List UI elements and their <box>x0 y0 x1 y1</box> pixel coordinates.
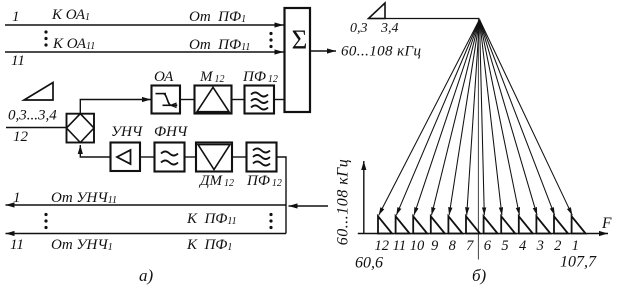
svg-text:От УНЧ11: От УНЧ11 <box>51 190 117 206</box>
label К ПФ1 <box>186 237 232 253</box>
hybrid block (square with diamond) <box>67 114 95 143</box>
svg-text:9: 9 <box>431 238 439 254</box>
label OA <box>154 69 174 85</box>
svg-text:К ОА1: К ОА1 <box>51 7 90 23</box>
spectrum ramp symbol 0,3...3,4 <box>24 83 53 101</box>
summator output wire <box>310 50 336 52</box>
label 11 (bottom-left) <box>10 237 24 253</box>
demodulator DM12 <box>196 143 232 172</box>
svg-text:ФНЧ: ФНЧ <box>154 124 189 140</box>
label От УНЧ11 <box>51 190 117 206</box>
label б) <box>472 266 487 285</box>
label DM12 <box>198 173 234 189</box>
wire DM12 to PF12b <box>232 156 247 158</box>
ellipsis dots bottom-right <box>269 213 272 229</box>
svg-text:0,3: 0,3 <box>350 21 368 36</box>
label 60...108 кГц (axis) <box>335 159 352 246</box>
label 0,3...3,4 <box>8 108 57 124</box>
wire PF12b to receive bus <box>277 157 287 234</box>
amplifier UNCh <box>111 143 141 172</box>
wire UNCh to FNCh <box>140 156 155 158</box>
svg-text:107,7: 107,7 <box>560 254 597 271</box>
wire hybrid to OA <box>80 100 151 114</box>
frequency axis F <box>358 233 608 235</box>
svg-text:От УНЧ1: От УНЧ1 <box>51 237 113 253</box>
svg-text:б): б) <box>472 266 487 285</box>
wire line 1 (from UNCh11) <box>6 204 287 206</box>
ramp symbol 0,3-3,4 (b) <box>369 3 386 19</box>
svg-text:3,4: 3,4 <box>380 21 399 36</box>
wire UNC to hybrid <box>80 145 110 157</box>
svg-text:11: 11 <box>393 238 406 254</box>
ellipsis dots left top <box>44 30 47 46</box>
svg-text:60...108 кГц: 60...108 кГц <box>335 159 352 246</box>
svg-text:К ПФ1: К ПФ1 <box>186 237 232 253</box>
level axis (vertical) <box>363 161 365 234</box>
wire FNCh to DM12 <box>185 156 197 158</box>
label От ПФ1 <box>189 9 246 25</box>
label 107,7 <box>560 254 597 271</box>
label а) <box>139 266 154 285</box>
lowpass filter FNCh <box>155 143 185 172</box>
label От УНЧ1 <box>51 237 113 253</box>
wire line 11 (from UNCh1) <box>6 233 287 235</box>
svg-text:ОА: ОА <box>154 69 174 85</box>
svg-text:11: 11 <box>11 53 25 69</box>
label 3,4 (b) <box>380 21 399 36</box>
channel numbers 12..1 <box>375 238 579 254</box>
label UNCh <box>111 124 144 140</box>
wire baseline to apex <box>369 18 480 20</box>
svg-text:8: 8 <box>449 238 457 254</box>
label 11 (below line) <box>11 53 25 69</box>
svg-text:1: 1 <box>12 9 20 25</box>
svg-text:3: 3 <box>536 238 544 254</box>
label К ОА11 <box>52 36 95 52</box>
modulator M12 <box>195 86 232 114</box>
svg-text:12: 12 <box>375 238 390 254</box>
bandpass filter PF12 (top) <box>245 86 275 114</box>
wire PF12 to summator <box>274 99 285 101</box>
svg-text:11: 11 <box>10 237 24 253</box>
svg-text:а): а) <box>139 266 154 285</box>
label 1 (top-left) <box>12 9 20 25</box>
wire line 11 (to summator) <box>5 51 284 53</box>
svg-text:4: 4 <box>519 238 526 254</box>
svg-text:12: 12 <box>13 129 29 145</box>
ellipsis dots near summator top <box>269 32 272 48</box>
wire channel 12 input <box>6 127 67 129</box>
svg-text:F: F <box>601 215 612 232</box>
label 0,3 (b) <box>350 21 368 36</box>
channel spectrum triangles 12..1 <box>378 216 586 233</box>
label К ПФ11 <box>186 211 237 227</box>
label К ОА1 <box>51 7 90 23</box>
summator block <box>285 8 311 112</box>
label M12 <box>199 69 225 85</box>
label 60...108 кГц (output) <box>341 44 421 60</box>
svg-text:0,3...3,4: 0,3...3,4 <box>8 108 57 124</box>
block OA (amplitude limiter) <box>152 86 181 114</box>
svg-text:Σ: Σ <box>292 25 308 55</box>
svg-text:1: 1 <box>13 190 21 206</box>
svg-text:5: 5 <box>501 238 508 254</box>
label PF12 (top) <box>242 69 278 85</box>
label 1 (bottom-left) <box>13 190 21 206</box>
svg-text:УНЧ: УНЧ <box>111 124 144 140</box>
wire M12 to PF12 <box>232 99 245 101</box>
svg-text:60...108 кГц: 60...108 кГц <box>341 44 421 60</box>
label 12 (input) <box>13 129 29 145</box>
wire line 1 (to summator) <box>5 24 284 26</box>
vertical line from apex <box>477 19 479 260</box>
wire OA to M12 <box>180 99 195 101</box>
label PF12 (bottom) <box>246 173 282 189</box>
svg-text:10: 10 <box>410 238 425 254</box>
fan of 12 channel lines <box>379 20 573 216</box>
svg-text:От ПФ1: От ПФ1 <box>189 9 246 25</box>
svg-text:60,6: 60,6 <box>355 255 383 272</box>
svg-text:6: 6 <box>484 238 492 254</box>
label 60,6 <box>355 255 383 272</box>
label FNCh <box>154 124 189 140</box>
label От ПФ11 <box>189 37 250 53</box>
svg-text:1: 1 <box>572 238 579 254</box>
svg-text:7: 7 <box>466 238 474 254</box>
svg-text:2: 2 <box>554 238 561 254</box>
bandpass filter PF12 (bottom) <box>247 143 277 172</box>
label F <box>601 215 612 232</box>
ellipsis dots bottom-left <box>44 213 47 229</box>
wire group signal input <box>289 205 329 207</box>
